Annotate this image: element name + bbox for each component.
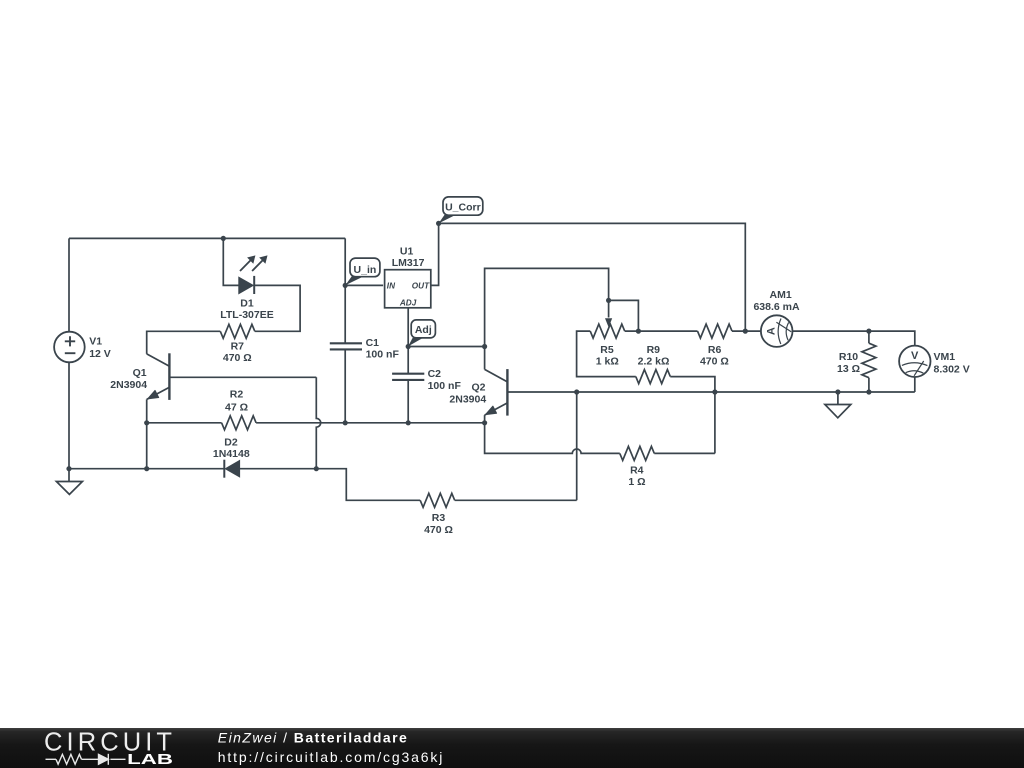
Q1 collector slant (147, 354, 170, 366)
Q2 collector slant (485, 369, 508, 382)
wire R3 riser (576, 392, 578, 500)
svg-text:2N3904: 2N3904 (449, 394, 486, 406)
node base rail / R3 riser (574, 389, 579, 394)
net flag U_in (345, 258, 380, 285)
svg-text:100 nF: 100 nF (428, 380, 462, 392)
voltage source V1 circle (54, 332, 85, 363)
wire R4 right lead (654, 452, 715, 454)
net flag U_Corr (439, 197, 483, 224)
svg-text:1 kΩ: 1 kΩ (596, 355, 619, 367)
svg-text:R6: R6 (708, 344, 722, 356)
net flag Adj (408, 320, 435, 347)
svg-text:V1: V1 (89, 336, 102, 348)
svg-text:100 nF: 100 nF (366, 349, 400, 361)
node C1 bottom / R2 rail (343, 420, 348, 425)
wire Q1 emitter drop (146, 399, 148, 468)
svg-text:U1: U1 (400, 246, 414, 258)
LED D1 triangle (239, 277, 253, 293)
ground V1 (56, 469, 82, 495)
wire U_Corr rail to AM1 (439, 223, 746, 331)
svg-text:LAB: LAB (127, 751, 173, 768)
node V1 minus / ground (66, 466, 71, 471)
LED D1 emission arrows (240, 255, 268, 271)
wire U1 ADJ pin (407, 307, 409, 346)
wire R5 left lead/drop to R9 (577, 331, 636, 377)
resistor R6 (698, 324, 733, 338)
Q2 emitter slant (485, 403, 508, 415)
svg-text:D2: D2 (224, 436, 238, 448)
svg-text:470 Ω: 470 Ω (424, 524, 453, 536)
svg-text:C2: C2 (428, 368, 442, 380)
wire V1 top lead (68, 238, 70, 331)
svg-text:U_in: U_in (354, 264, 377, 276)
wire D2 anode to R3 corner (240, 469, 421, 501)
svg-text:IN: IN (387, 281, 396, 290)
ammeter AM1 (761, 315, 793, 347)
R5 wiper arrow (608, 300, 610, 317)
node junction top rail / D1 branch (221, 236, 226, 241)
svg-text:R10: R10 (839, 351, 858, 363)
node U_Corr (436, 221, 441, 226)
svg-text:R4: R4 (630, 464, 644, 476)
node R10 top (866, 329, 871, 334)
svg-text:47 Ω: 47 Ω (225, 402, 248, 414)
wire Adj to Q2 collector node (408, 346, 484, 348)
node R5 right terminal (636, 329, 641, 334)
wire Q1 base drop with hop over R2 rail (316, 377, 320, 468)
node ground tap right (835, 389, 840, 394)
svg-text:R3: R3 (432, 512, 446, 524)
wire Q2 base rail to VM1 bottom (507, 391, 914, 393)
wire U_in vertical (top rail to C1) (344, 238, 346, 343)
Q2 collector vertical (484, 347, 486, 370)
svg-text:OUT: OUT (412, 281, 430, 290)
capacitor C2 plates (392, 374, 424, 380)
voltmeter VM1 (899, 346, 930, 377)
logo resistor-diode glyph (46, 754, 126, 765)
ground right (825, 392, 851, 418)
svg-text:12 V: 12 V (89, 348, 111, 360)
node U_in (343, 283, 348, 288)
svg-text:13 Ω: 13 Ω (837, 363, 860, 375)
node base rail / R9-R4 riser (712, 389, 717, 394)
LED D1 cathode bar (253, 276, 255, 294)
op-amp regulator U1 box (385, 270, 431, 308)
transistor Q2 base bar (506, 369, 508, 416)
svg-text:Q2: Q2 (471, 381, 485, 393)
svg-text:R9: R9 (647, 344, 661, 356)
svg-text:2N3904: 2N3904 (110, 379, 147, 391)
svg-text:Q1: Q1 (133, 367, 147, 379)
wire Q2 emitter drop to R4 (484, 415, 486, 423)
node R10 bottom (866, 389, 871, 394)
node C2 bottom / R2 rail (406, 420, 411, 425)
svg-text:Adj: Adj (415, 324, 432, 336)
node Q2 collector / Adj junction (482, 344, 487, 349)
wire U1 OUT pin up to U_Corr node (431, 223, 439, 285)
wire R10 bottom lead (868, 378, 870, 392)
wire D1 cathode to R7 (254, 285, 300, 331)
wire R9 right lead to junction (670, 377, 715, 392)
node Q2 emitter junction (482, 420, 487, 425)
node Q1 base drop / D2 rail (314, 466, 319, 471)
wire R5-R6 link (625, 330, 698, 332)
wire R3 right lead (455, 499, 577, 501)
svg-text:470 Ω: 470 Ω (700, 355, 729, 367)
potentiometer R5 zigzag (590, 324, 625, 338)
V1 minus sign (65, 352, 76, 354)
node Q1 emitter / R2 junction (144, 420, 149, 425)
svg-text:LM317: LM317 (392, 257, 425, 269)
svg-text:1 Ω: 1 Ω (628, 476, 645, 488)
svg-text:2.2 kΩ: 2.2 kΩ (638, 355, 670, 367)
capacitor C1 plates (330, 343, 362, 349)
svg-text:LTL-307EE: LTL-307EE (220, 309, 273, 321)
Q2 emitter arrow (486, 406, 497, 415)
svg-text:A: A (765, 327, 777, 335)
wire C2 top lead (407, 347, 409, 374)
svg-text:U_Corr: U_Corr (445, 202, 481, 214)
transistor Q1 base bar (168, 353, 170, 400)
svg-text:VM1: VM1 (934, 351, 956, 363)
svg-text:R7: R7 (231, 341, 245, 353)
diode D2 cathode bar (223, 460, 225, 478)
wire R2 right lead (256, 422, 485, 424)
Q1 emitter arrow (148, 390, 159, 399)
wire R4 riser (714, 392, 716, 453)
node R6 / U_Corr riser junction (743, 329, 748, 334)
svg-text:1N4148: 1N4148 (213, 448, 250, 460)
wire U1 IN pin (345, 284, 383, 286)
svg-text:638.6 mA: 638.6 mA (753, 301, 800, 313)
footer bar (0, 728, 1024, 768)
resistor R9 (636, 370, 671, 384)
wire Q1 base (169, 376, 316, 378)
svg-text:470 Ω: 470 Ω (223, 352, 252, 364)
resistor R2 (222, 416, 257, 430)
resistor R7 (220, 324, 255, 338)
wire R5 wiper loop (609, 300, 639, 331)
resistor R4 (620, 446, 655, 460)
svg-text:R5: R5 (600, 344, 614, 356)
svg-text:http://circuitlab.com/cg3a6kj: http://circuitlab.com/cg3a6kj (218, 749, 444, 765)
svg-text:D1: D1 (240, 298, 254, 310)
wire D1 anode drop (223, 238, 239, 285)
svg-text:ADJ: ADJ (399, 299, 417, 308)
wire R4 left with hop over R3 riser (485, 423, 620, 454)
resistor R3 (420, 493, 455, 507)
svg-text:R2: R2 (230, 388, 244, 400)
node R5 wiper junction (606, 298, 611, 303)
Q1 emitter slant (147, 387, 170, 399)
svg-text:V: V (911, 350, 919, 362)
wire VM1 bottom lead (914, 377, 916, 392)
svg-text:EinZwei / Batteriladdare: EinZwei / Batteriladdare (218, 730, 408, 746)
wire C2 bottom lead (407, 380, 409, 423)
wire R7 left to Q1 collector (147, 331, 221, 354)
svg-text:C1: C1 (366, 337, 380, 349)
node Adj (406, 344, 411, 349)
wire V1 bottom lead (68, 362, 70, 469)
wire AM1 to VM1 top (793, 331, 915, 346)
wire Q2 collector riser to R5 rail (485, 268, 609, 346)
wire bottom-left rail V1 to D2 (69, 468, 224, 470)
wire R6 right lead to AM1 (732, 330, 761, 332)
wire C1 bottom lead (344, 349, 346, 422)
svg-text:8.302 V: 8.302 V (934, 364, 970, 376)
wire R2 left lead (147, 422, 222, 424)
wire R10 top lead (868, 331, 870, 343)
node Q1 emitter / bottom rail (144, 466, 149, 471)
diode D2 triangle (225, 461, 239, 477)
resistor R10 (862, 343, 876, 378)
svg-text:AM1: AM1 (770, 289, 792, 301)
V1 plus sign (65, 336, 75, 346)
wire top rail from V1 to U_in vertical (69, 237, 345, 239)
